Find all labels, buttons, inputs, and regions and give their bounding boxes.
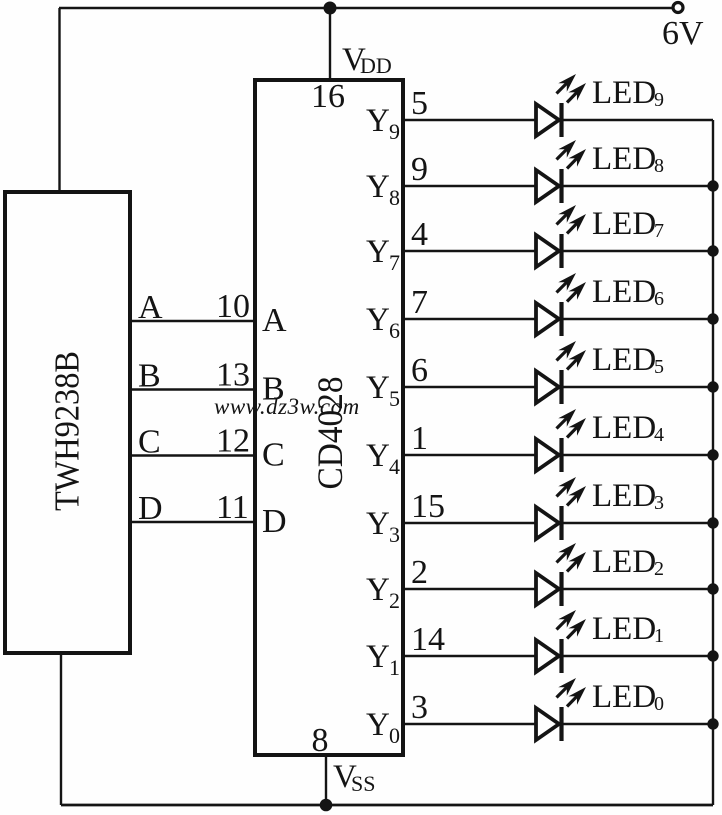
svg-text:Y: Y (366, 506, 390, 542)
wire CD4028 Y2 output to LED2 anode (403, 588, 537, 590)
svg-text:C: C (138, 424, 161, 461)
svg-text:1: 1 (389, 655, 400, 680)
svg-text:LED: LED (592, 478, 656, 514)
node junction LED7 at right rail (707, 245, 718, 256)
node junction at VDD tap (324, 2, 337, 15)
wire input A from TWH9238B to CD4028 (130, 320, 255, 322)
svg-text:Y: Y (366, 639, 390, 675)
wire LED6 cathode to right rail (562, 318, 714, 320)
IC U1 TWH9238B (5, 192, 130, 653)
wire CD4028 Y7 output to LED7 anode (403, 250, 537, 252)
wire LED0 cathode to right rail (562, 723, 714, 725)
wire input C from TWH9238B to CD4028 (130, 454, 255, 456)
svg-text:10: 10 (216, 288, 250, 325)
LED5 diode (536, 371, 559, 403)
wire right common rail (712, 120, 714, 805)
wire bottom supply rail (61, 804, 713, 807)
wire LED7 cathode to right rail (562, 250, 714, 252)
wire input D from TWH9238B to CD4028 (130, 521, 255, 523)
svg-text:LED: LED (592, 206, 656, 242)
LED8 diode (536, 170, 559, 202)
svg-text:www.dz3w.com: www.dz3w.com (214, 394, 360, 419)
node junction LED2 at right rail (707, 583, 718, 594)
svg-text:LED: LED (592, 544, 656, 580)
svg-text:LED: LED (592, 679, 656, 715)
svg-text:5: 5 (654, 356, 664, 378)
wire from top rail down to TWH9238B (58, 8, 60, 194)
svg-text:0: 0 (654, 693, 664, 715)
svg-text:Y: Y (366, 169, 390, 205)
svg-text:16: 16 (311, 78, 345, 115)
svg-text:Y: Y (366, 234, 390, 270)
svg-text:Y: Y (366, 103, 390, 139)
LED3 diode (536, 507, 559, 539)
svg-text:6: 6 (654, 288, 664, 310)
wire from TWH9238B down to bottom rail (60, 653, 62, 805)
svg-text:4: 4 (411, 216, 428, 253)
svg-text:C: C (262, 437, 285, 474)
svg-text:Y: Y (366, 302, 390, 338)
svg-text:9: 9 (654, 89, 664, 111)
svg-text:4: 4 (389, 454, 400, 479)
svg-text:7: 7 (389, 250, 400, 275)
LED4 diode (536, 439, 559, 471)
svg-text:15: 15 (411, 488, 445, 525)
svg-text:2: 2 (411, 554, 428, 591)
svg-text:LED: LED (592, 75, 656, 111)
wire LED1 cathode to right rail (562, 655, 714, 657)
LED1 diode (536, 640, 559, 672)
svg-text:1: 1 (411, 420, 428, 457)
svg-text:TWH9238B: TWH9238B (48, 351, 87, 511)
svg-text:2: 2 (389, 588, 400, 613)
svg-text:A: A (138, 289, 163, 326)
node junction LED8 at right rail (707, 180, 718, 191)
node junction LED1 at right rail (707, 650, 718, 661)
wire VDD pin 16 to top rail (329, 8, 331, 80)
node junction LED6 at right rail (707, 313, 718, 324)
wire CD4028 Y4 output to LED4 anode (403, 454, 537, 456)
wire VSS pin 8 to bottom rail (325, 755, 327, 805)
LED7 diode (536, 235, 559, 267)
svg-text:9: 9 (411, 151, 428, 188)
6V supply terminal (673, 3, 683, 13)
svg-text:3: 3 (411, 689, 428, 726)
LED2 diode (536, 573, 559, 605)
wire LED8 cathode to right rail (562, 185, 714, 187)
LED6 diode (536, 303, 559, 335)
svg-text:5: 5 (389, 386, 400, 411)
svg-text:Y: Y (366, 438, 390, 474)
svg-text:LED: LED (592, 611, 656, 647)
LED0 diode (536, 708, 559, 740)
svg-text:9: 9 (389, 119, 400, 144)
node junction LED3 at right rail (707, 517, 718, 528)
svg-text:8: 8 (654, 155, 664, 177)
svg-text:DD: DD (360, 53, 392, 78)
svg-text:12: 12 (216, 423, 250, 460)
node junction LED4 at right rail (707, 449, 718, 460)
svg-text:A: A (262, 302, 287, 339)
svg-text:B: B (138, 358, 161, 395)
svg-text:Y: Y (366, 572, 390, 608)
svg-text:LED: LED (592, 342, 656, 378)
svg-text:2: 2 (654, 558, 664, 580)
svg-text:8: 8 (389, 185, 400, 210)
svg-text:11: 11 (216, 489, 249, 526)
wire CD4028 Y5 output to LED5 anode (403, 386, 537, 388)
svg-text:7: 7 (654, 220, 664, 242)
wire CD4028 Y6 output to LED6 anode (403, 318, 537, 320)
wire LED5 cathode to right rail (562, 386, 714, 388)
svg-text:Y: Y (366, 707, 390, 743)
svg-text:5: 5 (411, 85, 428, 122)
IC U2 CD4028 (255, 80, 403, 755)
svg-text:13: 13 (216, 357, 250, 394)
svg-text:LED: LED (592, 410, 656, 446)
svg-text:6V: 6V (662, 15, 704, 52)
wire CD4028 Y3 output to LED3 anode (403, 522, 537, 524)
wire CD4028 Y1 output to LED1 anode (403, 655, 537, 657)
wire CD4028 Y8 output to LED8 anode (403, 185, 537, 187)
svg-text:SS: SS (351, 771, 375, 796)
svg-text:1: 1 (654, 625, 664, 647)
svg-text:6: 6 (411, 352, 428, 389)
node junction LED0 at right rail (707, 718, 718, 729)
svg-text:D: D (262, 503, 287, 540)
svg-text:6: 6 (389, 318, 400, 343)
svg-text:7: 7 (411, 284, 428, 321)
wire CD4028 Y9 output to LED9 anode (403, 119, 537, 121)
svg-text:4: 4 (654, 424, 664, 446)
svg-text:D: D (138, 490, 163, 527)
wire input B from TWH9238B to CD4028 (130, 388, 255, 390)
wire LED9 cathode to right rail (562, 119, 714, 121)
wire LED3 cathode to right rail (562, 522, 714, 524)
svg-text:Y: Y (366, 370, 390, 406)
wire LED4 cathode to right rail (562, 454, 714, 456)
svg-text:14: 14 (411, 621, 445, 658)
wire top supply rail (59, 7, 672, 9)
LED9 diode (536, 104, 559, 136)
svg-text:8: 8 (312, 722, 329, 759)
svg-text:0: 0 (389, 723, 400, 748)
wire LED2 cathode to right rail (562, 588, 714, 590)
wire CD4028 Y0 output to LED0 anode (403, 723, 537, 725)
svg-text:LED: LED (592, 274, 656, 310)
svg-text:3: 3 (389, 522, 400, 547)
svg-text:3: 3 (654, 492, 664, 514)
svg-text:LED: LED (592, 141, 656, 177)
node junction VSS at bottom rail (320, 799, 333, 812)
node junction LED5 at right rail (707, 381, 718, 392)
